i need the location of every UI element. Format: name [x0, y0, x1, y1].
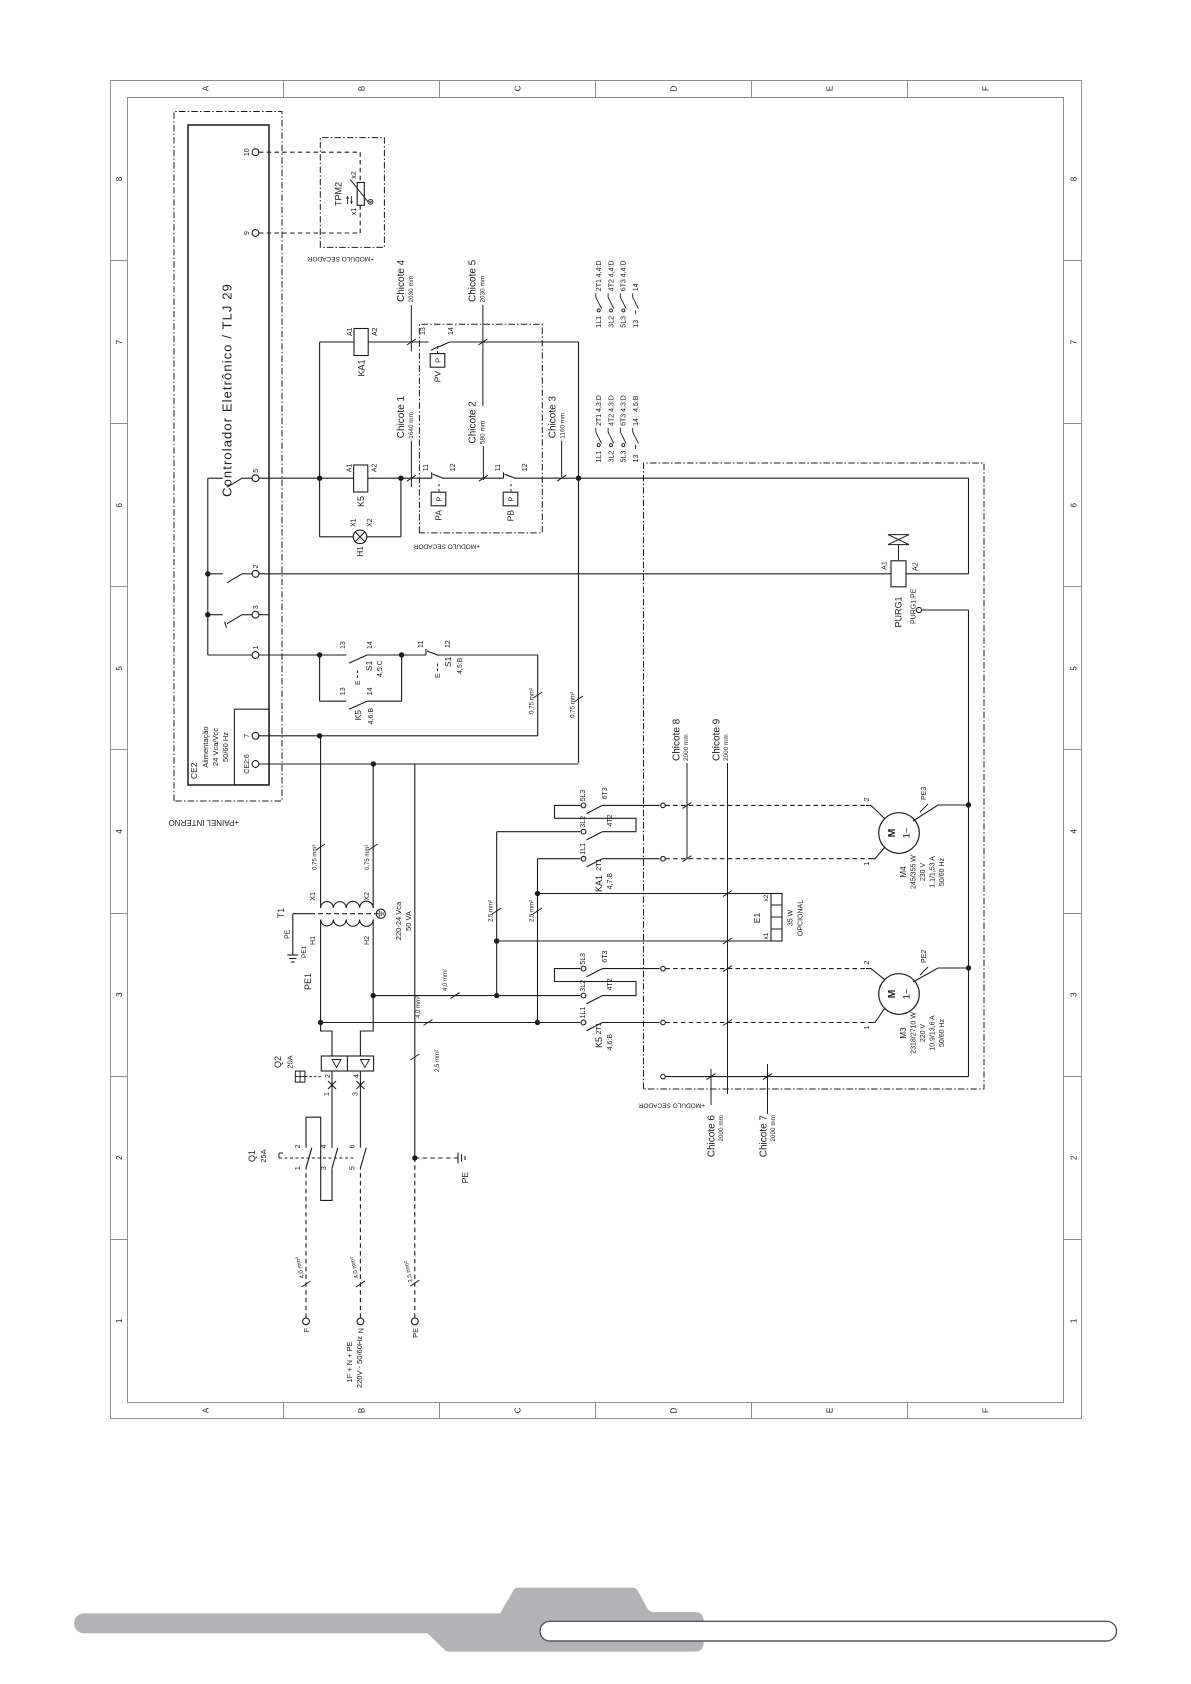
wire PE to ground (dashed)	[415, 1157, 458, 1159]
svg-text:E: E	[435, 673, 442, 678]
frame column divider 4	[111, 749, 128, 751]
transformer T1 core (dashed)	[310, 913, 375, 915]
breaker Q2 pole symbols	[332, 1060, 341, 1068]
svg-text:4,7:B: 4,7:B	[607, 873, 614, 890]
gray slider tab	[428, 1588, 704, 1652]
svg-text:P: P	[435, 496, 444, 501]
svg-text:14: 14	[448, 327, 455, 335]
terminal CE2:9	[252, 230, 259, 237]
svg-text:20A: 20A	[286, 1055, 295, 1068]
svg-text:PE: PE	[460, 1172, 470, 1184]
svg-text:PURG1: PURG1	[894, 596, 904, 627]
svg-text:5L3: 5L3	[580, 790, 587, 802]
svg-text:3: 3	[253, 605, 260, 609]
svg-text:10: 10	[244, 148, 251, 156]
svg-text:PE1: PE1	[303, 973, 313, 990]
node E1 on link1	[535, 891, 540, 896]
terminal CE2:6	[252, 761, 259, 768]
svg-text:M4: M4	[899, 866, 908, 878]
svg-text:1: 1	[253, 646, 260, 650]
node bus-term3	[205, 612, 210, 617]
svg-text:1L1: 1L1	[596, 316, 603, 328]
svg-text:25A: 25A	[259, 1149, 268, 1162]
svg-text:4,0 mm²: 4,0 mm²	[443, 969, 449, 991]
svg-text:Chicote 1: Chicote 1	[396, 396, 407, 439]
terminal PURG1:PE	[916, 607, 921, 612]
svg-text:1~: 1~	[902, 988, 913, 999]
frame row divider 4	[751, 1403, 753, 1419]
svg-text:4,5:B: 4,5:B	[457, 657, 464, 674]
transformer T1 primary winding	[321, 920, 374, 927]
svg-text:8: 8	[1070, 176, 1079, 181]
svg-text:N: N	[356, 1328, 365, 1333]
white pill outline	[540, 1621, 1117, 1641]
svg-text:PE2: PE2	[921, 950, 928, 963]
actuator dashes PV	[437, 345, 439, 354]
svg-text:Chicote 7: Chicote 7	[759, 1115, 770, 1158]
wire M4 line2 dashed	[665, 804, 866, 806]
wire KA1 phase2 link	[496, 832, 498, 996]
svg-text:H1: H1	[310, 936, 317, 945]
enclosure +MODULO SECADOR (TPM2) dash-dot box	[320, 138, 384, 248]
svg-text:OPCIONAL: OPCIONAL	[798, 900, 805, 936]
wire KA1 phase1 down	[538, 858, 580, 860]
svg-text:Chicote 8: Chicote 8	[672, 718, 683, 761]
svg-text:X1: X1	[351, 518, 358, 527]
svg-text:5: 5	[1070, 666, 1079, 671]
harness line Chicote 8	[686, 763, 688, 858]
svg-text:4: 4	[353, 1074, 360, 1078]
node H1 feed	[318, 1020, 323, 1025]
svg-text:2,5 mm²: 2,5 mm²	[435, 1050, 441, 1072]
frame row divider 1	[283, 1403, 285, 1419]
svg-text:T1: T1	[276, 908, 286, 919]
svg-text:2000 mm: 2000 mm	[723, 734, 730, 761]
svg-text:D: D	[670, 85, 679, 91]
svg-text:4T2: 4T2	[607, 814, 614, 826]
svg-text:11: 11	[495, 464, 502, 471]
wire K5 series link 4T2-5L3	[555, 969, 637, 996]
svg-text:A1: A1	[882, 561, 889, 570]
wire M4 line1 dashed	[665, 858, 871, 860]
wire return rail (y578)	[578, 342, 580, 763]
svg-text:3L2: 3L2	[580, 816, 587, 828]
svg-text:x1: x1	[351, 208, 358, 216]
wire H1 branch left vertical	[320, 536, 354, 538]
thermistor TPM2	[357, 183, 364, 206]
svg-text:0,75 mm²: 0,75 mm²	[529, 688, 536, 714]
pressure switch box PV	[430, 354, 445, 368]
breaker Q1 pole 1-2	[306, 1148, 312, 1168]
svg-text:B: B	[358, 1408, 367, 1413]
svg-text:A: A	[202, 85, 211, 91]
svg-text:14: 14	[367, 641, 374, 649]
terminal PE	[411, 1318, 418, 1325]
contactor K5 pole 5L3-6T3	[581, 966, 586, 971]
svg-text:3: 3	[115, 992, 124, 997]
svg-text:1160 mm: 1160 mm	[560, 413, 567, 439]
wire terminal2 down	[259, 573, 891, 575]
harness line Chicote 5	[482, 305, 484, 406]
svg-text:KA1: KA1	[594, 875, 604, 892]
svg-text:F: F	[982, 1408, 991, 1413]
svg-text:4,6:B: 4,6:B	[368, 708, 375, 725]
svg-text:220V - 50/60Hz: 220V - 50/60Hz	[355, 1336, 364, 1388]
marker TPM2 arrows	[347, 196, 349, 204]
svg-text:1: 1	[295, 1166, 302, 1170]
mark X pole2	[328, 1081, 336, 1089]
svg-text:PE: PE	[411, 1328, 420, 1338]
svg-text:2: 2	[1070, 1155, 1079, 1160]
svg-text:Alimentação: Alimentação	[201, 726, 210, 767]
svg-text:6T3: 6T3	[621, 414, 628, 426]
wire terminal1 down	[259, 654, 320, 656]
terminal circle KA1-M4 phase1	[661, 856, 666, 861]
svg-text:50 VA: 50 VA	[404, 911, 413, 931]
svg-text:1: 1	[864, 862, 871, 866]
svg-text:M: M	[886, 989, 898, 998]
svg-text:6: 6	[349, 1144, 356, 1148]
controller box U-CE2 Controlador Eletronico / TLJ 29	[188, 125, 269, 785]
harness line Chicote 4	[410, 305, 412, 351]
svg-text:C: C	[514, 1407, 523, 1413]
svg-text:A1: A1	[347, 327, 354, 336]
svg-text:A1: A1	[347, 464, 354, 473]
svg-text:220 V: 220 V	[920, 1024, 927, 1043]
svg-text:1,1/1,53 A: 1,1/1,53 A	[930, 856, 937, 888]
svg-text:2T1: 2T1	[596, 859, 603, 871]
svg-text:1~: 1~	[902, 827, 913, 838]
svg-text:7: 7	[244, 734, 251, 738]
svg-text:12: 12	[445, 640, 452, 648]
enclosure +MODULO SECADOR (main module)	[644, 463, 985, 1089]
svg-text:+MODULO SECADOR: +MODULO SECADOR	[307, 255, 374, 262]
wire X1 to terminal7 rung	[320, 736, 322, 908]
frame column divider 7	[111, 260, 128, 262]
motor M4	[879, 813, 920, 854]
terminal circle K5-M3 phase3	[661, 966, 666, 971]
terminal CE2:10	[252, 149, 259, 156]
svg-text:Chicote 6: Chicote 6	[707, 1115, 718, 1158]
node H2 feed	[371, 993, 376, 998]
actuator dashes PB	[510, 481, 512, 491]
svg-text:1F + N + PE: 1F + N + PE	[345, 1341, 354, 1382]
terminal CE2:5	[252, 475, 259, 482]
ground PE1	[287, 954, 298, 956]
wire CE2:6 rung	[259, 763, 579, 765]
controller internal contact at terminal 5	[208, 477, 223, 479]
svg-text:S1: S1	[443, 656, 453, 667]
node bus-term2	[205, 571, 210, 576]
contactor KA1 pole 3L2-4T2	[579, 831, 580, 833]
svg-text:2T1: 2T1	[596, 279, 603, 291]
svg-text:3: 3	[352, 1092, 359, 1096]
svg-text:A2: A2	[913, 562, 920, 571]
svg-text:E1: E1	[752, 913, 762, 924]
svg-text:D: D	[670, 1407, 679, 1413]
svg-text:2: 2	[325, 1074, 332, 1078]
harness line Chicote 2	[482, 446, 484, 480]
wire K5aux bottom	[401, 655, 403, 701]
frame column divider 3	[111, 913, 128, 915]
svg-text:Chicote 4: Chicote 4	[396, 259, 407, 302]
terminal circle K5-M3 phase1	[661, 1020, 666, 1025]
svg-text:H2: H2	[364, 936, 371, 945]
svg-text:Q2: Q2	[273, 1056, 283, 1068]
contactor KA1 pole 5L3-6T3	[581, 803, 586, 808]
svg-text:K5: K5	[594, 1037, 604, 1048]
terminal N	[357, 1318, 364, 1325]
frame column divider 2	[111, 1076, 128, 1078]
svg-text:Chicote 5: Chicote 5	[468, 259, 479, 302]
power sub-box Alimentacao	[234, 709, 269, 785]
svg-text:5: 5	[349, 1166, 356, 1170]
svg-text:4: 4	[115, 829, 124, 834]
svg-text:6T3: 6T3	[621, 279, 628, 291]
contact S1 13-14 (NO)	[349, 655, 367, 663]
frame column divider 5	[111, 586, 128, 588]
node E1 on link2	[494, 938, 499, 943]
svg-text:4T2: 4T2	[607, 978, 614, 990]
svg-text:B: B	[358, 86, 367, 91]
svg-text:PA: PA	[434, 510, 444, 521]
wire PE vertical in module	[665, 1076, 968, 1078]
frame column divider 1	[111, 1239, 128, 1241]
contactor K5 pole 1L1-2T1	[579, 1022, 580, 1024]
harness line Chicote 6	[710, 1069, 712, 1105]
svg-text:K5: K5	[353, 710, 363, 721]
wire M3 line1 dashed	[665, 1022, 871, 1024]
svg-text:2030 mm: 2030 mm	[480, 276, 487, 303]
contact K5 13-14 (aux NO)	[349, 701, 367, 709]
breaker Q1 pole 5-6	[360, 1148, 366, 1168]
coil PURG1	[891, 561, 906, 587]
svg-text:6: 6	[1070, 503, 1079, 508]
svg-text:5: 5	[253, 469, 260, 473]
bottom UI overlay bar	[0, 1580, 1191, 1684]
svg-text:4,3:D: 4,3:D	[596, 395, 603, 412]
svg-text:5L3: 5L3	[621, 316, 628, 328]
svg-text:1: 1	[864, 1025, 871, 1029]
svg-text:3L2: 3L2	[608, 451, 615, 463]
svg-text:CE2: CE2	[189, 762, 199, 779]
wire Q2-H2 jog	[360, 920, 373, 1057]
svg-text:4,0 mm²: 4,0 mm²	[416, 996, 422, 1018]
actuator dashes PA	[438, 481, 440, 491]
wire KA1 coil to PV	[368, 341, 428, 343]
wire K5aux top	[319, 655, 321, 701]
wire K5 coil down	[368, 477, 401, 479]
svg-text:PE1: PE1	[301, 945, 308, 958]
svg-text:4: 4	[321, 1144, 328, 1148]
svg-text:F: F	[302, 1327, 311, 1332]
svg-text:M: M	[886, 828, 898, 837]
svg-text:1: 1	[1070, 1318, 1079, 1323]
svg-text:F: F	[982, 86, 991, 91]
harness line Chicote 7	[767, 1064, 769, 1114]
svg-text:PE: PE	[285, 929, 292, 939]
svg-text:+MODULO SECADOR: +MODULO SECADOR	[413, 543, 480, 550]
terminal CE2:1	[252, 652, 259, 659]
terminal CE2:2	[252, 570, 259, 577]
frame inner border	[128, 98, 1064, 1403]
pressure switch box PB	[503, 492, 518, 506]
svg-text:3L2: 3L2	[608, 316, 615, 328]
svg-text:4,4:D: 4,4:D	[596, 260, 603, 277]
harness line Chicote 3	[561, 441, 563, 477]
svg-text:4,3:D: 4,3:D	[621, 395, 628, 412]
wire KA1 series link 4T2-5L3	[555, 805, 637, 831]
svg-text:TPM2: TPM2	[334, 182, 344, 206]
svg-text:2,5 mm²: 2,5 mm²	[489, 900, 495, 922]
svg-text:5L3: 5L3	[621, 451, 628, 463]
contact PV 13-14 (NO)	[431, 342, 450, 350]
svg-text:X2: X2	[364, 892, 371, 901]
wire M3 line2 dashed	[665, 968, 866, 970]
svg-text:KA1: KA1	[357, 360, 367, 377]
svg-text:3: 3	[321, 1166, 328, 1170]
svg-text:13: 13	[340, 687, 347, 695]
wire Q1 series link 2-3	[306, 1117, 332, 1200]
wire K5 rung down to purge loop	[579, 477, 969, 479]
node term7/X1	[317, 733, 322, 738]
svg-text:1: 1	[115, 1318, 124, 1323]
svg-text:13: 13	[420, 327, 427, 335]
breaker Q1 linkage	[279, 1157, 356, 1159]
svg-text:E: E	[355, 680, 362, 685]
controller internal contact at terminal 2	[208, 573, 223, 575]
svg-text:8: 8	[115, 176, 124, 181]
svg-text:11: 11	[418, 641, 425, 648]
svg-text:K5: K5	[356, 496, 366, 507]
svg-text:11: 11	[423, 464, 430, 471]
svg-text:PB: PB	[506, 510, 516, 522]
breaker Q1 pole 3-4	[332, 1148, 338, 1168]
gray slider bar	[74, 1613, 640, 1633]
node S1 top	[317, 652, 322, 657]
wire K5 rung to coil	[320, 477, 354, 479]
wire terminal5 down	[259, 477, 320, 479]
svg-text:+MODULO SECADOR: +MODULO SECADOR	[638, 1102, 705, 1109]
svg-text:14: 14	[367, 687, 374, 695]
node PE junction	[412, 1155, 417, 1160]
svg-text:13: 13	[340, 641, 347, 649]
svg-text:Controlador Eletrônico / TLJ 2: Controlador Eletrônico / TLJ 29	[220, 283, 235, 497]
svg-text:5L3: 5L3	[580, 953, 587, 965]
lamp H1	[353, 530, 367, 544]
wire S1 to NC contact	[402, 654, 426, 656]
terminal F	[303, 1318, 310, 1325]
svg-text:1: 1	[324, 1092, 331, 1096]
node K5 rung H1-return	[398, 475, 403, 480]
svg-text:PE3: PE3	[921, 787, 928, 800]
svg-text:245/355 W: 245/355 W	[911, 855, 918, 889]
svg-text:A: A	[202, 1407, 211, 1413]
svg-text:0,75 mm²: 0,75 mm²	[570, 692, 577, 718]
svg-text:x1: x1	[763, 932, 770, 939]
svg-text:4,0 mm²: 4,0 mm²	[296, 1256, 306, 1279]
node K5 rung return-line	[576, 475, 581, 480]
svg-text:M3: M3	[899, 1027, 908, 1039]
svg-text:P: P	[507, 496, 516, 501]
terminal circle KA1-M4 phase3	[661, 803, 666, 808]
svg-text:2318/2710 W: 2318/2710 W	[911, 1012, 918, 1054]
breaker Q2 box	[321, 1056, 373, 1071]
motor M3	[879, 974, 920, 1015]
svg-text:6: 6	[115, 503, 124, 508]
heater E1	[771, 894, 782, 942]
contactor KA1 pole 1L1-2T1	[579, 858, 580, 860]
marker TPM2 theta	[368, 199, 373, 204]
svg-text:C: C	[514, 85, 523, 91]
wire T1 shield to PE1	[293, 913, 310, 915]
wire Q2-H1 jog	[321, 920, 332, 1057]
svg-text:4,4:D: 4,4:D	[608, 260, 615, 277]
svg-text:2000 mm: 2000 mm	[683, 734, 690, 761]
wire terminal7 rung	[259, 735, 538, 737]
svg-text:2: 2	[253, 564, 260, 568]
svg-text:4,6:B: 4,6:B	[607, 1034, 614, 1051]
breaker Q2 mechanism	[295, 1071, 305, 1082]
wire K5aux left	[320, 700, 347, 702]
wire Q1 pole3 to Q2	[359, 1071, 361, 1128]
controller internal bus	[207, 478, 209, 655]
svg-text:P: P	[434, 358, 443, 363]
svg-text:A2: A2	[372, 464, 379, 473]
terminal CE2:3	[252, 611, 259, 618]
svg-text:A2: A2	[372, 327, 379, 336]
svg-text:3: 3	[1070, 992, 1079, 997]
wire link K5-rung to KA1/H1 (horizontal)	[319, 342, 321, 537]
svg-text:4T2: 4T2	[608, 414, 615, 426]
svg-text:2000 mm: 2000 mm	[718, 1115, 725, 1142]
svg-text:+PAINEL INTERNO: +PAINEL INTERNO	[169, 818, 239, 827]
contactor K5 pole 3L2-4T2	[579, 995, 580, 997]
node KA1 link on phase1	[535, 1020, 540, 1025]
terminal circle PE into module	[661, 1074, 666, 1079]
coil K5	[354, 465, 368, 492]
svg-text:2: 2	[115, 1155, 124, 1160]
wire F to Q1 (dashed)	[305, 1168, 307, 1318]
pressure switch box PA	[431, 492, 446, 506]
svg-text:x2: x2	[763, 894, 770, 901]
svg-text:2T1: 2T1	[596, 414, 603, 426]
contact PB 11-12 (NC)	[503, 472, 505, 478]
svg-text:14: 14	[633, 418, 640, 426]
svg-text:PV: PV	[433, 371, 443, 383]
wire terminal9 to TPM2 (dashed)	[259, 232, 360, 234]
frame row divider 5	[907, 1403, 909, 1419]
svg-text:PURG1:PE: PURG1:PE	[911, 588, 918, 624]
svg-text:6T3: 6T3	[602, 950, 609, 962]
svg-text:4T2: 4T2	[608, 279, 615, 291]
wire Q1 pole2 to Q2	[331, 1071, 333, 1128]
svg-text:50/60 Hz: 50/60 Hz	[939, 1018, 946, 1047]
coil KA1	[354, 329, 368, 356]
svg-text:1L1: 1L1	[580, 1007, 587, 1019]
wire KA1 phase1 link	[537, 859, 539, 1023]
svg-text:1L1: 1L1	[596, 451, 603, 463]
svg-text:50/60 Hz: 50/60 Hz	[939, 857, 946, 886]
svg-text:2030 mm: 2030 mm	[408, 276, 415, 303]
node K5-rung top link	[317, 475, 322, 480]
svg-text:7: 7	[115, 339, 124, 344]
svg-text:12: 12	[450, 463, 457, 471]
svg-text:6T3: 6T3	[602, 787, 609, 799]
wire PE rail	[414, 764, 416, 1158]
ground PE (main)	[457, 1153, 459, 1164]
svg-text:S1: S1	[364, 660, 374, 671]
